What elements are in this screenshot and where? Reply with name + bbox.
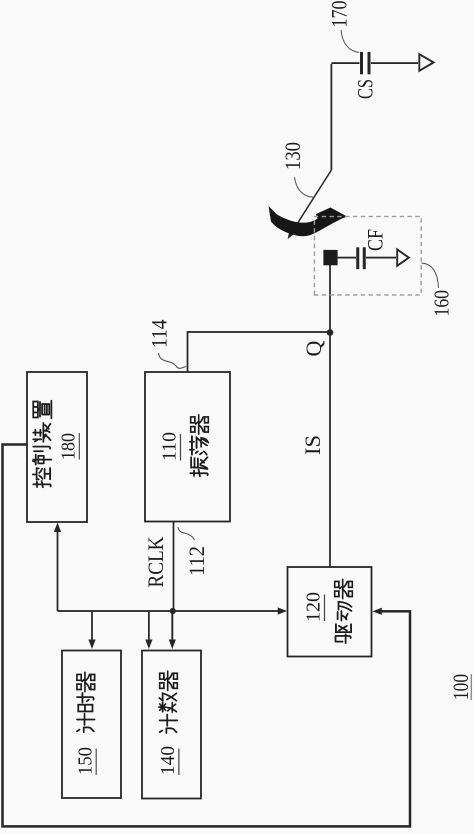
glyph 控 bbox=[33, 468, 51, 487]
label 140 underline bbox=[178, 749, 180, 776]
glyph 器 oscillator bbox=[191, 415, 209, 434]
block 驱动器 120 driver bbox=[288, 567, 372, 657]
wire branch to counter upper bbox=[148, 611, 150, 640]
ground symbol CF bbox=[397, 249, 409, 265]
svg-text:114: 114 bbox=[147, 320, 172, 349]
wire RCLK oscillator to junction bbox=[173, 522, 175, 612]
leader line 112 bbox=[178, 527, 195, 540]
glyph 振 bbox=[190, 457, 207, 476]
capacitor CF plates bbox=[358, 247, 365, 269]
svg-text:150: 150 bbox=[75, 747, 97, 775]
svg-text:110: 110 bbox=[159, 432, 181, 461]
svg-text:Q: Q bbox=[301, 341, 326, 357]
glyph 计 timer bbox=[77, 714, 95, 732]
svg-text:CF: CF bbox=[363, 229, 388, 251]
wire CS branch switch pivot to capacitor corner bbox=[331, 63, 418, 170]
glyph 制 bbox=[33, 447, 51, 465]
label 110 underline bbox=[180, 434, 182, 461]
svg-text:IS: IS bbox=[300, 435, 325, 455]
svg-text:160: 160 bbox=[430, 290, 454, 317]
block 控制装置 180 control device bbox=[27, 372, 87, 522]
junction dot RCLK node bbox=[170, 608, 176, 614]
block 计数器 140 counter bbox=[142, 651, 201, 799]
dashed box 160 bbox=[314, 217, 421, 296]
arrowhead into counter lower bbox=[169, 640, 176, 650]
glyph 器 driver bbox=[335, 579, 353, 598]
svg-text:130: 130 bbox=[280, 142, 305, 170]
leader line 130 bbox=[295, 177, 314, 197]
label 120 underline bbox=[324, 595, 326, 622]
svg-text:CS: CS bbox=[353, 79, 378, 99]
label 150 underline bbox=[95, 749, 97, 776]
wire IS driver to node Q to switch contact bbox=[329, 264, 331, 567]
block 振荡器 110 oscillator bbox=[145, 372, 230, 522]
glyph 时 bbox=[77, 693, 94, 711]
glyph 荡 bbox=[190, 436, 208, 454]
svg-text:170: 170 bbox=[327, 1, 352, 28]
arrowhead into control device bbox=[54, 523, 61, 533]
svg-text:140: 140 bbox=[157, 746, 179, 775]
leader line 160 bbox=[422, 263, 439, 288]
junction node Q dot bbox=[327, 329, 334, 336]
svg-text:100: 100 bbox=[448, 674, 473, 700]
glyph 置 bbox=[33, 401, 51, 419]
glyph 器 timer bbox=[77, 672, 95, 691]
leader line 170 bbox=[341, 30, 359, 53]
label 100 underline bbox=[470, 674, 472, 700]
wire trunk vertical bbox=[58, 610, 284, 612]
capacitor CS plates bbox=[362, 52, 370, 74]
wire CF stem bbox=[338, 257, 396, 259]
wire branch to counter lower bbox=[171, 611, 173, 640]
arrowhead into driver bottom bbox=[373, 608, 382, 615]
switch motion arrow swoosh bbox=[269, 206, 348, 236]
arrowhead into counter upper bbox=[145, 640, 152, 650]
svg-text:RCLK: RCLK bbox=[143, 536, 168, 587]
ground symbol CS bbox=[419, 54, 433, 71]
wire branch to timer bbox=[91, 611, 93, 640]
label 180 underline bbox=[78, 433, 80, 460]
wire oscillator output 114 bbox=[188, 332, 331, 372]
switch fixed contact square bbox=[323, 250, 337, 265]
svg-text:120: 120 bbox=[303, 592, 325, 622]
glyph 装 bbox=[33, 423, 50, 442]
glyph 驱 bbox=[336, 624, 352, 643]
arrowhead into timer bbox=[88, 640, 95, 650]
switch blade arrowhead bbox=[288, 229, 296, 239]
svg-text:180: 180 bbox=[58, 433, 80, 460]
glyph 动 bbox=[338, 602, 352, 621]
leader line 114 bbox=[158, 353, 186, 368]
glyph 计 counter bbox=[160, 715, 178, 733]
wire trunk to control device bbox=[57, 531, 59, 611]
arrowhead into driver top bbox=[278, 607, 287, 614]
block 计时器 150 timer bbox=[62, 651, 121, 799]
switch blade 130 bbox=[289, 170, 332, 237]
glyph 数 bbox=[159, 693, 177, 712]
svg-text:112: 112 bbox=[184, 546, 209, 576]
glyph 器 counter bbox=[160, 671, 178, 690]
